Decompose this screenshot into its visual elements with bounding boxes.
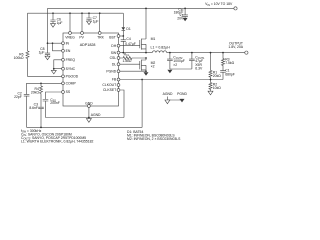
wire VIN rail	[48, 7, 234, 9]
wire VREG pin drop	[69, 12, 71, 31]
wire PGND row	[120, 70, 146, 72]
svg-text:SW: SW	[111, 51, 117, 55]
svg-text:PGND: PGND	[106, 69, 116, 73]
svg-text:PV: PV	[79, 36, 84, 40]
svg-text:GND: GND	[85, 101, 93, 105]
svg-text:TRK: TRK	[97, 36, 105, 40]
pin SW	[111, 51, 120, 55]
ground C7 (open)	[87, 21, 92, 25]
node OUTPUT terminal	[228, 42, 248, 55]
svg-text:L1 = 0.82µH: L1 = 0.82µH	[151, 45, 171, 49]
capacitor C8 1uF on IN	[39, 43, 51, 56]
diode D1 BAT54 from VREG rail to BST	[122, 13, 131, 36]
ground AGND arrow (open)	[86, 119, 91, 123]
svg-text:6.3V: 6.3V	[195, 66, 203, 70]
capacitor C6 1uF on VREG rail	[50, 12, 62, 24]
ground C8 (open)	[45, 56, 50, 60]
pin CSL	[110, 56, 120, 60]
svg-text:M1: M1	[151, 37, 156, 41]
svg-text:CLKSET: CLKSET	[103, 88, 116, 92]
svg-text:ADP1828: ADP1828	[80, 43, 96, 47]
pin PGND	[106, 69, 119, 73]
pin DH	[111, 44, 120, 48]
pin FB	[112, 78, 120, 82]
svg-text:FB: FB	[112, 78, 117, 82]
pin DL	[112, 62, 120, 66]
svg-text:8.6nF: 8.6nF	[29, 106, 38, 110]
pin EN	[62, 49, 71, 53]
svg-text:C4: C4	[126, 37, 130, 41]
pin PGOOD	[62, 75, 79, 79]
svg-text:SS: SS	[66, 90, 71, 94]
svg-text:20kΩ: 20kΩ	[31, 91, 39, 95]
svg-text:FREQ: FREQ	[66, 58, 76, 62]
wire SS to CSS	[46, 92, 62, 99]
pin BST	[109, 35, 120, 40]
svg-text:DL: DL	[112, 62, 116, 66]
pin VREG	[65, 32, 75, 40]
wire FB row	[120, 79, 223, 81]
wire R6 to PGOOD row	[28, 59, 62, 77]
svg-text:BST: BST	[109, 36, 116, 40]
svg-text:200nF: 200nF	[50, 101, 60, 105]
wire VREG rail	[28, 12, 124, 14]
svg-text:20V: 20V	[177, 17, 184, 21]
node VIN input terminal	[205, 2, 237, 10]
wire COMP row	[27, 83, 62, 94]
wire COUT ground tie	[170, 62, 192, 69]
resistor R6 100k pull-up	[14, 51, 29, 60]
wire IN row	[48, 42, 62, 44]
capacitor COUT2 1000uF x2 POSCAP	[167, 52, 185, 69]
pin SS	[62, 90, 71, 94]
wire CLKSET to AGND bus	[120, 90, 124, 118]
svg-text:20kΩ: 20kΩ	[213, 74, 221, 78]
wire VIN corner drop to IN row	[47, 8, 49, 43]
wire DH row to M1 gate	[120, 45, 140, 47]
svg-text:100kΩ: 100kΩ	[14, 56, 24, 60]
svg-text:1µF: 1µF	[57, 21, 63, 25]
wire VREG rail left drop to R6	[27, 13, 29, 51]
svg-text:22pF: 22pF	[14, 95, 22, 99]
wire AGND bus	[46, 117, 125, 119]
node junction EN tie	[52, 42, 54, 44]
node junction M2 source / PGND	[145, 70, 147, 72]
pin SYNC	[62, 67, 76, 71]
transistor M2 low-side NMOS x2	[140, 58, 156, 71]
svg-text:COMP: COMP	[66, 82, 77, 86]
wire TRK pin drop	[99, 12, 101, 31]
node junction C4/SW	[122, 52, 124, 54]
resistor R2 10k feedback bottom	[209, 80, 221, 92]
resistor R4 20k comp	[31, 83, 43, 107]
svg-text:PGND: PGND	[177, 92, 187, 96]
svg-text:680pF: 680pF	[225, 72, 235, 76]
ground COUT (filled)	[167, 70, 172, 73]
wire EN tie to IN	[53, 43, 62, 51]
pin FREQ	[62, 58, 76, 62]
node junction VIN rail / M1	[145, 8, 147, 10]
wire OUT row	[167, 52, 245, 54]
capacitor C2 22pF	[14, 92, 29, 128]
capacitor C7 1uF on PV	[86, 12, 98, 23]
svg-text:RCL: RCL	[124, 52, 130, 57]
svg-text:7.5kΩ: 7.5kΩ	[225, 61, 234, 65]
node junction GND bus	[88, 117, 90, 119]
node legend PGND symbol	[177, 92, 187, 103]
svg-text:×2: ×2	[151, 64, 155, 68]
wire SW row	[120, 52, 153, 54]
svg-text:D1: D1	[126, 27, 130, 31]
svg-text:1.8V, 20A: 1.8V, 20A	[228, 45, 243, 49]
capacitor C3 3.6nF comp	[29, 102, 43, 127]
node junction IN/C8	[47, 42, 49, 44]
node junction BST	[122, 35, 124, 37]
transistor M1 high-side NMOS	[140, 37, 156, 52]
wire PV pin drop	[81, 12, 83, 31]
svg-text:×2: ×2	[173, 63, 177, 67]
svg-text:1µF: 1µF	[39, 50, 45, 54]
ground C6 (open)	[51, 24, 56, 28]
node junction SW / M1 source	[145, 52, 147, 54]
ground R2 (open)	[208, 91, 213, 95]
svg-text:VREG: VREG	[65, 36, 75, 40]
wire DL row to M2 gate	[120, 63, 140, 65]
wire PGND return from FB-row junction	[27, 79, 143, 129]
wire VIN drop to M1 drain	[145, 8, 147, 39]
node legend AGND symbol	[163, 92, 182, 104]
inductor L1 0.82uH	[151, 45, 171, 52]
svg-text:M2: INFINEON, 2 × BSC030N03LS: M2: INFINEON, 2 × BSC030N03LS	[127, 137, 181, 141]
op-amp U1 ADP1828 controller box	[63, 33, 119, 106]
svg-text:VIN = 10V TO 18V: VIN = 10V TO 18V	[205, 2, 233, 7]
svg-text:10kΩ: 10kΩ	[213, 86, 221, 90]
pin GND	[85, 101, 93, 107]
resistor R3 7.5k feedforward	[222, 52, 235, 71]
pin COMP	[62, 82, 77, 86]
svg-text:IN: IN	[66, 41, 70, 45]
svg-text:1.8kΩ: 1.8kΩ	[123, 59, 132, 63]
ground CIN (filled)	[183, 18, 188, 21]
svg-text:0.47µF: 0.47µF	[125, 42, 136, 46]
resistor R1 20k feedback top	[209, 52, 221, 80]
pin CLKOUT	[102, 83, 119, 87]
svg-text:AGND: AGND	[91, 113, 101, 117]
svg-text:AGND: AGND	[163, 92, 173, 96]
ground M2 source (filled)	[144, 72, 149, 75]
svg-text:CLKOUT: CLKOUT	[102, 83, 116, 87]
capacitor C1 680pF	[220, 69, 235, 80]
svg-text:L1: WURTH ELEKTRONIK, 0.82µH,: L1: WURTH ELEKTRONIK, 0.82µH, 744355182	[21, 139, 93, 143]
capacitor COUT1 47uF X5R	[189, 52, 205, 71]
svg-text:1µF: 1µF	[93, 19, 99, 23]
node junction CSL / M2 drain	[145, 57, 147, 59]
svg-text:SYNC: SYNC	[66, 67, 76, 71]
ground FREQ/SYNC (open)	[51, 70, 56, 74]
svg-text:CSL: CSL	[110, 56, 117, 60]
wire BST to D1/C4 node	[120, 35, 124, 37]
svg-text:PGOOD: PGOOD	[66, 75, 79, 79]
pin CLKSET	[103, 88, 120, 92]
pin PV	[79, 32, 84, 40]
capacitor CSS 200nF soft start	[43, 98, 60, 118]
pin IN	[62, 41, 70, 45]
capacitor C4 0.47uF BST to SW	[121, 36, 136, 53]
resistor RCL 1.8k current limit	[120, 52, 146, 63]
wire FREQ/SYNC tie to ground	[53, 60, 62, 71]
pin TRK	[97, 32, 105, 40]
svg-text:EN: EN	[66, 49, 71, 53]
node junction R1/R2/FB	[210, 79, 212, 81]
svg-text:DH: DH	[111, 44, 116, 48]
node junction COMP/R4	[40, 82, 42, 84]
capacitor CIN 180uF x2 OSCON	[174, 8, 188, 21]
wire GND pin drop	[88, 107, 90, 117]
